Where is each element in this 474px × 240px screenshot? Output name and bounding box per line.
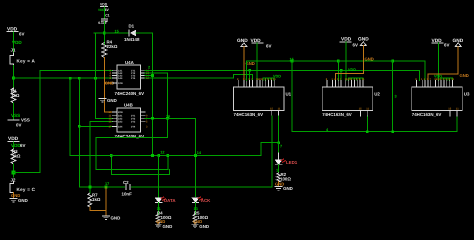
wire H137 (96, 137, 167, 139)
node junction square Key C net (12, 171, 16, 175)
svg-text:0V: 0V (16, 122, 21, 127)
power GND above U1 (237, 38, 248, 47)
svg-text:74HC163N_6V: 74HC163N_6V (234, 112, 264, 117)
wire J2 to ground (GND net orange) (13, 193, 15, 199)
power VDD above U2 (340, 37, 358, 48)
wire orange GND to U1 pin (243, 47, 245, 81)
svg-text:7: 7 (280, 144, 282, 148)
wire H187 (79, 186, 124, 188)
svg-text:U4B: U4B (124, 103, 133, 108)
ground LED1 (275, 182, 293, 191)
wire vertical x95.5 down to U4B pin2 (95, 33, 97, 118)
svg-text:2A4: 2A4 (118, 125, 123, 128)
power GND above U3 (453, 38, 464, 47)
svg-text:12: 12 (160, 151, 164, 155)
svg-text:GND: GND (283, 186, 293, 191)
ground symbol below R7 (103, 215, 121, 220)
svg-text:VSS: VSS (11, 113, 20, 118)
svg-text:GND: GND (18, 198, 28, 203)
resistor R7 1k (88, 193, 101, 207)
svg-text:74HC163N_6V: 74HC163N_6V (322, 112, 352, 117)
wire net3 vertical x393 (392, 61, 394, 132)
ground symbol under U4A (99, 98, 117, 103)
wire link U1 to U2 bottom (292, 131, 368, 133)
svg-text:16: 16 (166, 115, 170, 119)
orange stub to U4A enable pin (104, 82, 112, 84)
svg-text:GND: GND (111, 215, 121, 220)
switch J1 Key=A (10, 48, 36, 66)
wire H174.7 (111, 174, 169, 176)
svg-text:1kΩ: 1kΩ (92, 197, 101, 202)
wire LED1 drop (278, 143, 280, 153)
counter U2 74HC163N (322, 78, 380, 117)
svg-text:U1: U1 (286, 92, 292, 97)
svg-text:GND: GND (107, 98, 117, 103)
op-amp U4A 74HC240 buffer (110, 60, 150, 96)
wire H155 main (70, 155, 261, 157)
wire C1 down through net15 to R4 (103, 21, 105, 44)
resistor R5 100 DATA (156, 203, 172, 224)
svg-text:VSS: VSS (21, 117, 30, 122)
wire U4A out3 to net15 vertical (145, 75, 153, 77)
svg-text:0.1uF: 0.1uF (98, 21, 107, 25)
svg-text:D1: D1 (129, 24, 135, 29)
svg-text:6V: 6V (105, 8, 110, 12)
wire L from Key C node up to y=70.5 (14, 172, 41, 174)
svg-text:2Y3: 2Y3 (131, 120, 136, 123)
wire orange vertical to ground (105, 187, 107, 216)
svg-text:3: 3 (395, 95, 397, 99)
wire R1 to VSS (13, 103, 15, 120)
wire VDD2 to R3 (13, 142, 15, 149)
node at x79 (78, 77, 81, 80)
power VSS (8, 113, 30, 128)
wire vertical x79 down to H187 (78, 78, 80, 187)
resistor R1 1k (11, 88, 20, 103)
wire VDD tie U1 (263, 77, 274, 79)
svg-text:J1: J1 (11, 48, 16, 53)
svg-text:6V: 6V (266, 43, 271, 48)
svg-text:17: 17 (105, 182, 109, 186)
wire D1 to x152 (136, 32, 153, 34)
wire U4B pin3 feed from x90 (90, 120, 113, 122)
wire VDD to U3 pin (437, 43, 439, 80)
svg-text:U2: U2 (374, 92, 380, 97)
svg-text:2A3: 2A3 (118, 120, 123, 123)
power VDD above U1 (251, 38, 272, 48)
svg-text:Key = C: Key = C (17, 187, 36, 192)
svg-text:GND: GND (163, 224, 173, 229)
ground DATA (155, 222, 172, 229)
wire VDD tie U2 (349, 77, 363, 79)
diode D1 1N4148 (124, 24, 140, 43)
resistor R4 22k (102, 40, 118, 58)
svg-text:6V: 6V (353, 43, 358, 48)
node Key A net (12, 77, 15, 80)
wire U4B pin4 feed from x79.3 (78, 125, 81, 128)
svg-text:74HC240N_6V: 74HC240N_6V (115, 91, 145, 96)
wire R3 to J2 (13, 164, 15, 177)
svg-text:2Y4: 2Y4 (131, 125, 136, 128)
ground symbol below J2 (10, 198, 28, 203)
svg-text:22kΩ: 22kΩ (107, 44, 118, 49)
node DATA tap (157, 154, 160, 157)
wire U4A out2 long to U2 U3 (145, 69, 419, 71)
svg-text:GND: GND (365, 56, 374, 61)
wire VDD to U2 pin (345, 42, 347, 80)
svg-text:15: 15 (115, 30, 119, 34)
svg-text:10nF: 10nF (122, 191, 133, 196)
svg-text:GND: GND (199, 224, 209, 229)
wire VDD to C1 (103, 7, 105, 18)
svg-text:U4A: U4A (125, 60, 135, 65)
wire vertical x70 down to H155 (69, 78, 71, 155)
svg-text:74HC163N_6V: 74HC163N_6V (412, 112, 442, 117)
power GND above U2 (358, 37, 369, 46)
wire U1 pinA down to H187 (271, 116, 273, 187)
svg-text:U3: U3 (464, 92, 470, 97)
resistor R6 100 ACK (193, 203, 209, 224)
LED ACK (192, 197, 211, 203)
svg-text:ACK: ACK (201, 198, 211, 203)
resistor R2 100 (277, 165, 292, 182)
wire DATA drop (158, 156, 160, 199)
node C1/net15 (103, 32, 106, 35)
svg-text:1: 1 (276, 168, 278, 172)
svg-text:C1: C1 (105, 14, 109, 18)
svg-text:DATA: DATA (164, 198, 176, 203)
svg-text:Key = A: Key = A (17, 59, 36, 64)
wire orange GND U3 (457, 47, 459, 74)
wire H170 (96, 169, 168, 171)
capacitor C2 10nF (122, 180, 133, 196)
counter U3 74HC163N (412, 78, 470, 117)
power VDD above U3 (432, 38, 450, 48)
wire U1 pinB down to LED1 node (278, 116, 280, 143)
svg-text:GND: GND (460, 73, 469, 78)
wire VDD tie U3 (441, 77, 452, 79)
svg-text:74HC240N_6V: 74HC240N_6V (115, 134, 145, 139)
svg-text:6V: 6V (19, 32, 24, 37)
wire Key A horizontal bus y=77.5 (14, 77, 113, 79)
power VDD second (8, 136, 25, 148)
ground ACK (192, 222, 209, 229)
wire U2U3 bottom link (367, 131, 457, 133)
power VDD J1 top-left (7, 27, 24, 46)
wire VDD to U1 pin (256, 43, 258, 80)
wire orange GND U2 (362, 46, 364, 74)
net 15 wire horizontal (94, 32, 129, 34)
node at x70 (69, 77, 72, 80)
svg-text:2: 2 (148, 66, 150, 70)
svg-text:VDD: VDD (348, 68, 356, 72)
svg-text:1Y4: 1Y4 (131, 77, 136, 80)
svg-text:LED1: LED1 (286, 160, 298, 165)
LED LED1 (275, 159, 297, 165)
switch J2 Key=C (10, 178, 36, 193)
wire J1 to node (13, 66, 15, 89)
wire U4B out2 east to ACK column (145, 117, 196, 119)
svg-text:6V: 6V (444, 43, 449, 48)
resistor R3 1k (11, 149, 21, 164)
wire U4A out2 to x167 down (145, 72, 168, 74)
svg-text:6V: 6V (20, 143, 25, 148)
wire net15 vertical x152 (152, 33, 154, 156)
svg-text:1A4: 1A4 (118, 77, 123, 80)
wire R4 bottom orange GND net (103, 58, 105, 113)
capacitor C1 (98, 14, 109, 25)
node at x95.5 (94, 77, 97, 80)
LED DATA (156, 197, 177, 203)
op-amp U4B 74HC240 buffer (109, 103, 149, 140)
wire VDD to J1 (13, 32, 15, 54)
wire R7 to orange gnd (89, 207, 91, 211)
wire U4A out4 long east to U1 (145, 77, 234, 79)
wire Key C to U4A pin2 (40, 69, 113, 71)
svg-text:GND: GND (237, 38, 248, 44)
wire net15 clock bus H61 (247, 60, 425, 62)
svg-text:1N4148: 1N4148 (124, 37, 140, 42)
counter U1 74HC163N (234, 78, 292, 117)
svg-text:1OE: 1OE (118, 82, 123, 85)
power VDD above C1 (98, 3, 109, 13)
wire x292 vertical down (291, 61, 293, 132)
